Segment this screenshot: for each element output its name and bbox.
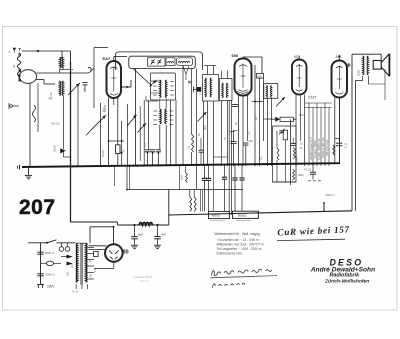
svg-text:4A: 4A [255, 117, 258, 120]
wire T1 links [151, 80, 160, 82]
wire hbar b [305, 107, 332, 109]
osc coil box B [220, 79, 233, 101]
transformer T4 core [80, 243, 82, 285]
svg-text:4μF: 4μF [138, 232, 143, 236]
svg-text:100Ω: 100Ω [101, 150, 105, 157]
node choke b [156, 224, 158, 226]
capacitor CT1 trimmer [151, 59, 155, 64]
detector box [273, 126, 297, 182]
wire R1 top [121, 121, 123, 141]
tuning arrow T1 [150, 80, 157, 87]
earth terminal [10, 105, 13, 108]
antenna coil can V1 oval [19, 70, 36, 84]
svg-text:450: 450 [257, 75, 262, 78]
wire coil to band can [18, 76, 20, 79]
antenna terminal [13, 48, 16, 51]
terminal block [197, 87, 201, 92]
capacitor C12 [279, 130, 284, 132]
tube U1 cathode line [113, 67, 115, 92]
wire het a [254, 65, 256, 166]
resistor R10 box [209, 211, 230, 218]
IF can T1 wall [133, 69, 152, 87]
wire below bus c [213, 165, 215, 212]
wire U1 heater b [117, 98, 119, 145]
node bus h [289, 163, 291, 165]
variable capacitor C3 arrow [86, 130, 91, 135]
wire osc a [203, 101, 205, 166]
coil T2 side ticks [154, 110, 158, 112]
wire mid drop a [170, 100, 172, 166]
wire osc b [207, 101, 209, 166]
wire antenna to tank [22, 50, 71, 52]
wire osc g [228, 101, 230, 216]
wire U3 grid cap [298, 56, 300, 60]
wire OT drop b [351, 54, 353, 211]
B+ wire upper [71, 221, 118, 223]
wire R1 down [117, 154, 119, 166]
tap box [94, 252, 99, 257]
resistor R7 zigzag [293, 170, 295, 181]
wire tank return [77, 86, 79, 166]
wire osc d [221, 101, 223, 167]
node bus i [312, 162, 314, 164]
svg-text:Radiofabrik: Radiofabrik [330, 273, 361, 279]
wire det b [271, 98, 273, 166]
svg-text:207: 207 [19, 196, 56, 219]
variable capacitor C1 arrow [68, 83, 80, 95]
wire U4 anode up [348, 63, 350, 67]
wire col b [312, 108, 314, 167]
wire secondary down [37, 83, 39, 132]
wire col e [324, 103, 326, 166]
wire U2 grid cap [242, 57, 244, 59]
resistor R5 box [283, 130, 287, 140]
coil T2b [165, 109, 166, 124]
resistor R9 zigzag [194, 197, 196, 211]
coil L1 antenna [17, 53, 20, 76]
resistor R3 box [257, 74, 264, 79]
svg-text:1,90: 1,90 [49, 92, 53, 98]
wire box drop b [182, 66, 184, 166]
svg-text:606: 606 [232, 53, 239, 58]
capacitor C15 [204, 165, 206, 178]
svg-text:4V: 4V [89, 259, 92, 262]
svg-text:U'16T: U'16T [308, 96, 316, 100]
svg-text:110: 110 [71, 264, 74, 268]
speaker cone [381, 54, 389, 63]
wire U1 anode with arrow [121, 86, 131, 88]
svg-text:Tel.Langwellen ·· 1000 - 2000: Tel.Langwellen ·· 1000 - 2000 m [217, 247, 262, 251]
wire R2 down [191, 152, 193, 166]
svg-text:470: 470 [144, 142, 147, 147]
resistor R2 zigzag [192, 134, 194, 152]
wire mid drop b [175, 100, 177, 166]
bus left terminal [19, 165, 21, 170]
coil L5b [226, 83, 227, 98]
transformer T4 secondary [86, 244, 87, 283]
wire col c [316, 103, 318, 166]
wire below bus a [114, 167, 116, 186]
resistor R6 zigzag [293, 148, 295, 159]
coil T2a [160, 109, 161, 124]
wire T1-T2 jog [146, 100, 158, 102]
choke L6 [139, 223, 153, 226]
wire U3 heater c [304, 95, 306, 167]
svg-text:Mittelwellen Vorr.Zust · 200-5: Mittelwellen Vorr.Zust · 200-577 m [217, 242, 265, 246]
wire U4 cathode b [339, 98, 341, 164]
wire OT top [352, 53, 381, 55]
diode D1 arrow [60, 148, 66, 153]
coil L2b RF secondary [62, 58, 64, 68]
wire below bus d [179, 166, 181, 190]
tap T4 e [87, 272, 94, 274]
svg-text:Drehbereichs ums: Drehbereichs ums [217, 252, 243, 256]
wire het c [263, 78, 265, 141]
tap T4 a [87, 247, 94, 249]
dial lamps [59, 247, 64, 252]
capacitor C22 [37, 251, 43, 253]
wire osc e [227, 101, 229, 167]
wire gang bus [70, 62, 72, 222]
svg-text:1Ω: 1Ω [300, 142, 303, 146]
svg-text:8000Ω: 8000Ω [238, 213, 246, 217]
coil T3a [266, 86, 267, 98]
node bus e [203, 164, 205, 166]
node bus d [136, 165, 138, 167]
capacitor C6 [150, 149, 155, 151]
wire col f [328, 108, 330, 167]
wire mains top [28, 242, 47, 244]
wire box drop d [196, 69, 198, 190]
tube U1 EA7 envelope [107, 61, 122, 98]
wire U1 grid cap [113, 56, 115, 61]
coil L3a tank [59, 81, 61, 95]
tuning arrow T3 [276, 97, 285, 107]
svg-text:604: 604 [299, 113, 304, 117]
capacitor C20 electrolytic [134, 225, 136, 236]
tap T4 c [87, 259, 94, 261]
wire rect bottom [113, 262, 115, 269]
band switch outer frame [115, 52, 202, 70]
capacitor C17 [234, 164, 236, 177]
svg-text:0,1: 0,1 [187, 145, 190, 149]
tap arrow a [67, 255, 73, 259]
svg-text:450: 450 [249, 139, 254, 143]
wire U2 heater c [247, 96, 249, 142]
IF can T1 box [151, 73, 176, 100]
chassis bus [22, 163, 340, 167]
coil T1 side ticks [153, 81, 157, 83]
capacitor C14 [335, 138, 340, 140]
capacitor C11 [243, 142, 248, 144]
svg-text:Zürich 8: Zürich 8 [140, 280, 149, 283]
capacitor C24 [224, 165, 226, 177]
wire drop to coil L1 [18, 53, 20, 57]
node bus f [234, 163, 236, 165]
svg-text:170: 170 [199, 90, 203, 95]
coil T1b [165, 80, 166, 98]
node choke a [133, 224, 135, 226]
trimmer sub-box A [148, 58, 166, 66]
node bus b [69, 165, 71, 167]
node antenna junction [37, 50, 39, 52]
handwritten scribble 1 [212, 269, 272, 275]
svg-text:A.Dewald Söhne: A.Dewald Söhne [133, 275, 153, 279]
mains plug [37, 284, 44, 286]
capacitor C2 trimmer [83, 82, 88, 84]
wire box drop c [191, 69, 193, 135]
wire mixer grid [100, 103, 102, 167]
wire screen drop [126, 165, 128, 189]
svg-text:0,1: 0,1 [260, 156, 263, 160]
resistor R14 zigzag [333, 145, 335, 155]
svg-text:250: 250 [90, 273, 93, 278]
svg-text:Zürich-Wollishofen: Zürich-Wollishofen [324, 279, 369, 285]
svg-text:4v 4v: 4v 4v [72, 290, 79, 294]
flexible lead wavy [33, 105, 36, 122]
variable capacitor C9 arrow [198, 112, 207, 122]
transformer T4 primary [76, 244, 77, 283]
svg-text:35: 35 [12, 64, 16, 68]
svg-text:220: 220 [67, 271, 70, 276]
capacitor C7 [156, 149, 161, 151]
wire T2b down [165, 125, 167, 166]
coil L2a RF primary [60, 58, 62, 68]
wire OT bottom a [362, 76, 364, 81]
tube U4 inner [338, 66, 340, 90]
wire het b [259, 78, 261, 166]
osc coil box A [203, 75, 219, 102]
resistor R12 zigzag [186, 173, 188, 183]
svg-text:5000 cf: 5000 cf [45, 251, 54, 255]
wire det a [267, 98, 269, 166]
svg-text:MW: MW [204, 125, 207, 130]
tube U3 envelope [292, 60, 307, 95]
resistor R1 box [116, 145, 120, 154]
svg-text:4/3 60: 4/3 60 [304, 168, 312, 172]
svg-text:A: A [9, 50, 11, 54]
capacitor C13 [291, 142, 296, 144]
coil OT secondary [367, 56, 368, 75]
capacitor C5 [145, 149, 150, 151]
wire R5 down [284, 140, 286, 182]
wire mains drop [40, 243, 42, 285]
resistor R4 box with arrow [280, 117, 294, 121]
node bus g [266, 163, 268, 165]
svg-text:KDN1: KDN1 [103, 104, 107, 112]
coil padder scribble [167, 61, 174, 62]
wire rail riser [168, 190, 170, 226]
svg-text:EA7: EA7 [103, 56, 112, 61]
wire T4 top [76, 242, 87, 244]
capacitor C21 electrolytic [157, 225, 159, 236]
tap arrow b [67, 262, 73, 266]
rectifier filaments [109, 251, 118, 254]
capacitor CT2 trimmer [157, 59, 161, 64]
svg-text:0F: 0F [300, 146, 303, 150]
svg-text:6M4 Drossel: 6M4 Drossel [325, 139, 329, 156]
wire can tap lower [36, 79, 44, 81]
coil L5a [222, 83, 223, 98]
wire U2 heater a [238, 96, 240, 167]
wire box drop a [135, 69, 137, 167]
wire rect left [89, 245, 107, 247]
wire col d [320, 108, 322, 167]
svg-text:220V: 220V [47, 285, 55, 289]
wire U4 grid cap [338, 57, 340, 61]
wire osc c [213, 101, 215, 166]
wire L2 tops [60, 57, 64, 59]
wire rail tick [323, 203, 325, 211]
tap T4 b [87, 253, 94, 255]
coil T3b [271, 86, 272, 98]
capacitor C10 [231, 141, 237, 143]
rectifier U5 type 80 [105, 244, 123, 262]
svg-text:2mA: 2mA [181, 175, 184, 180]
wire can tap upper [36, 72, 88, 74]
inscription underline [277, 239, 345, 240]
svg-text:4μF: 4μF [161, 232, 166, 236]
capacitor C19 [312, 164, 314, 172]
speaker magnet box [373, 61, 381, 70]
tube U4 envelope [332, 61, 348, 98]
wire hbar a [305, 102, 332, 104]
wire U2 heater b [242, 96, 244, 167]
fuse F1 [46, 261, 53, 265]
tube U3 inner [298, 64, 300, 87]
variable capacitor C8 arrow [138, 123, 147, 132]
svg-text:7A: 7A [344, 142, 347, 146]
capacitor C23 [37, 273, 43, 275]
capacitor C18 [241, 164, 243, 177]
tap T4 f [87, 278, 94, 280]
wire screen line [127, 189, 243, 191]
wire screen e [200, 190, 202, 212]
wire osc f [231, 101, 233, 216]
tube U2 606 envelope [235, 59, 252, 96]
resistor R8 zigzag [190, 197, 192, 211]
wire rect stem [113, 227, 115, 244]
svg-text:35000: 35000 [54, 144, 57, 152]
resistor R13 zigzag [276, 131, 278, 148]
wire below bus b [129, 166, 131, 190]
switch S1 [47, 240, 57, 243]
wire T2a down [159, 125, 161, 149]
svg-text:0,5: 0,5 [248, 131, 251, 135]
wire can down [29, 83, 31, 166]
wire osc pull [148, 100, 150, 149]
svg-text:80: 80 [123, 250, 129, 256]
coil T1a [160, 80, 161, 98]
wire U4 cathode a [334, 98, 336, 164]
coil L3b tank [62, 81, 64, 95]
svg-text:· Kurzwellen die ·· 13 - 5 50: · Kurzwellen die ·· 13 - 5 50 m [217, 238, 259, 242]
node bus c [109, 165, 111, 167]
IF can T3 box [264, 84, 278, 99]
wire det box bottom [273, 181, 297, 183]
variable capacitor C4 arrow [127, 115, 137, 126]
wire L2-L3 link [63, 96, 65, 150]
capacitor C16 [208, 165, 210, 178]
band switch box [129, 56, 196, 68]
wire col a [308, 103, 310, 166]
svg-text:600Ω: 600Ω [356, 70, 360, 76]
coil L4b [210, 78, 211, 97]
wire screen f [202, 190, 204, 212]
wire U1 heater a [108, 98, 110, 166]
resistor R11 box [233, 211, 259, 218]
wire OT drop a [355, 81, 357, 211]
svg-text:8000Ω: 8000Ω [212, 214, 220, 218]
coil L4a [205, 78, 206, 97]
svg-text:Wellenbereich für · Well. umge: Wellenbereich für · Well. umgeg [215, 232, 260, 236]
svg-text:5000 cf: 5000 cf [46, 273, 55, 277]
coil OT primary [363, 56, 364, 75]
svg-text:1MΩ: 1MΩ [298, 173, 304, 177]
trimmer sub-box B [166, 58, 175, 66]
B+ wire lower [118, 224, 169, 226]
wire U3 heater a [295, 95, 297, 167]
tap T4 d [87, 265, 94, 267]
handwritten scribble 2 [213, 283, 245, 287]
tube U2 inner [242, 64, 244, 89]
wire U3 heater b [300, 95, 302, 142]
svg-text:000 000: 000 000 [51, 123, 60, 126]
B+ rail [169, 211, 352, 215]
wire speaker down [384, 69, 386, 100]
wire det drop [290, 119, 292, 185]
ground symbol [28, 167, 30, 175]
svg-text:4004 m: 4004 m [326, 193, 336, 197]
